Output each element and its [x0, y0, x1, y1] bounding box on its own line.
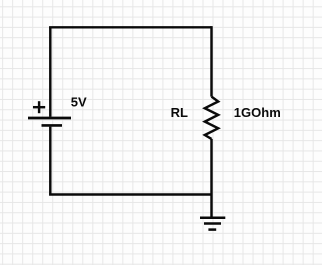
- wire: right vertical from top corner to resistor RL top pin: [210, 26, 212, 97]
- label: RL reference designator: [171, 105, 188, 120]
- wire: left vertical from top corner to battery + terminal: [49, 27, 51, 117]
- label: 5V value of battery: [71, 95, 87, 110]
- wire: top horizontal from battery branch to resistor branch: [50, 26, 211, 27]
- svg-text:1GOhm: 1GOhm: [234, 105, 281, 120]
- resistor RL zigzag body: [205, 97, 218, 139]
- wire: bottom horizontal from battery branch to ground node: [50, 193, 211, 194]
- ground symbol at bottom of resistor branch: [200, 218, 225, 230]
- svg-text:RL: RL: [171, 105, 188, 120]
- wire: right vertical from resistor RL bottom pin to ground: [210, 139, 212, 218]
- battery V1 5V: plus sign: [33, 101, 45, 113]
- svg-text:5V: 5V: [71, 95, 87, 110]
- battery V1 5V: short negative plate: [42, 124, 63, 127]
- battery V1 5V: long positive plate: [28, 117, 71, 120]
- wire: left vertical from battery - terminal to bottom corner: [49, 127, 51, 195]
- label: 1GOhm value of resistor: [234, 105, 281, 120]
